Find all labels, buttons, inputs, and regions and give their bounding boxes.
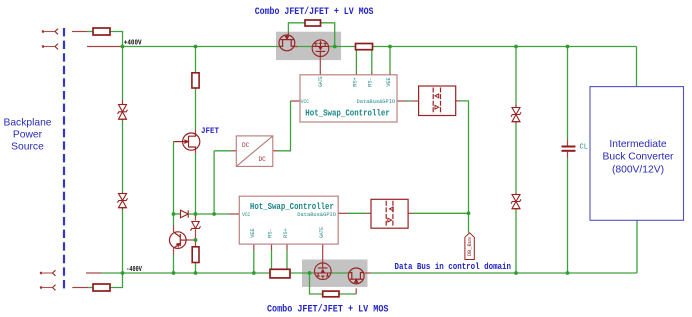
wire -400V rail left: [102, 272, 271, 274]
junction +400V corner: [121, 45, 125, 49]
svg-text:VEE: VEE: [386, 77, 392, 87]
wire DCDC in: [214, 150, 231, 152]
svg-text:DC: DC: [242, 142, 250, 149]
wire bottom fuse row: [88, 287, 93, 289]
junction -400V corner: [121, 271, 125, 275]
wire +400V rail left: [123, 46, 280, 48]
wire RS- sense tap: [371, 50, 373, 73]
TVS diode D1: [118, 101, 128, 121]
svg-text:Buck Converter: Buck Converter: [603, 152, 675, 163]
pin VCC bottom controller: [229, 213, 239, 215]
wire DCDC out: [278, 101, 291, 151]
pin GATE bottom controller: [322, 244, 324, 263]
junction VEE2 rail: [252, 271, 256, 275]
wire combo gate bridge left: [288, 23, 305, 33]
wire -400V rail right: [371, 272, 637, 274]
resistor RS1 shunt top: [356, 44, 373, 50]
svg-text:DB_Bus: DB_Bus: [466, 237, 473, 256]
junction zener node: [194, 212, 198, 216]
pin GATE top controller: [319, 56, 321, 75]
connector pin symbol bottom A: [40, 270, 56, 276]
pin RS+ top: [355, 73, 357, 75]
svg-text:Intermediate: Intermediate: [609, 139, 667, 150]
pin DCDC left: [231, 150, 236, 152]
TVS diode D2: [118, 193, 128, 210]
wire CL bottom: [567, 158, 569, 273]
resistor R2 series top: [192, 73, 199, 88]
pin DataBus top controller: [397, 100, 407, 102]
text combo bottom: [267, 304, 389, 316]
TVS diode D3: [511, 105, 521, 124]
wire VEE to rail: [389, 47, 391, 73]
pin DCDC right: [273, 150, 278, 152]
wire +400V rail right: [373, 46, 637, 48]
hot swap controller U1 (top): [300, 75, 397, 122]
pin CL top lead: [567, 140, 569, 146]
junction TVS3 rail: [514, 45, 518, 49]
resistor R6 bottom-left: [93, 284, 110, 291]
wire JFET gate column: [173, 142, 175, 225]
pin connector J1: [72, 31, 87, 33]
svg-text:Data Bus in control domain: Data Bus in control domain: [395, 262, 512, 272]
pin connector J4: [72, 287, 88, 289]
wire RS+2 sense: [286, 250, 288, 269]
pin DataBus bottom controller: [338, 212, 348, 214]
transistor Q4 combo-bottom MOSFET: [315, 263, 332, 280]
capacitor CL: [562, 147, 576, 151]
pin isolator1 left: [411, 100, 419, 102]
wire CL top: [567, 47, 569, 140]
wire RS-2 sense: [271, 250, 273, 269]
pin isolator2 right: [408, 212, 412, 214]
wire node row to diode: [174, 213, 181, 215]
DC/DC converter U3: [236, 136, 272, 167]
text data bus note: [395, 262, 512, 272]
wire bottom bridge left: [310, 273, 323, 294]
svg-text:VEE: VEE: [250, 228, 256, 238]
junction rail x195: [194, 45, 198, 49]
backplane boundary dashed line: [63, 28, 65, 291]
svg-text:Combo JFET/JFET + LV MOS: Combo JFET/JFET + LV MOS: [267, 304, 389, 316]
svg-text:-400V: -400V: [126, 266, 142, 274]
transistor Q5 combo-bottom JFET: [348, 268, 364, 284]
wire left column below TVS2: [122, 210, 124, 274]
wire databus top: [407, 100, 411, 102]
transistor Q1 JFET main: [174, 133, 200, 150]
svg-text:VCC: VCC: [301, 99, 309, 105]
wire top fuse row: [87, 31, 93, 33]
resistor RS2 shunt bottom: [270, 269, 290, 278]
wire VEE2 down: [253, 250, 255, 273]
text combo top: [255, 6, 374, 18]
svg-text:GATE: GATE: [318, 76, 324, 87]
svg-text:Backplane: Backplane: [3, 117, 51, 128]
wire left column above TVS1: [122, 47, 124, 101]
svg-text:Power: Power: [13, 130, 43, 141]
junction CL rail: [566, 45, 570, 49]
wire combo gate bridge right: [321, 23, 335, 47]
svg-text:Combo JFET/JFET + LV MOS: Combo JFET/JFET + LV MOS: [255, 6, 374, 18]
pin bottom JFET gate lead: [355, 288, 357, 294]
junction BJT rail: [172, 271, 176, 275]
diode D5: [181, 210, 189, 217]
connector pin symbol bottom B: [40, 285, 56, 291]
wire isolator1 to bus column: [460, 101, 469, 233]
pin RS- top: [371, 73, 373, 75]
label CL: [580, 144, 588, 152]
wire fuse to +400V rail corner: [110, 32, 123, 47]
wire diode to VCC node: [189, 213, 229, 215]
wire rail to series resistor: [195, 47, 197, 73]
wire resistor to -400V rail: [195, 263, 197, 273]
pin zener top lead: [195, 214, 197, 221]
net label -400V: [126, 266, 142, 274]
pin VEE bottom: [253, 244, 255, 250]
pin CL bottom lead: [567, 152, 569, 158]
svg-text:RS+: RS+: [352, 77, 358, 87]
wire TVS3 top: [515, 47, 517, 105]
svg-text:JFET: JFET: [201, 126, 219, 136]
junction base node: [194, 238, 198, 242]
wire databus bottom: [348, 212, 366, 214]
transistor Q6 BJT: [170, 232, 187, 249]
resistor R3 combo top bridge: [305, 20, 321, 26]
resistor R4 mid: [192, 247, 199, 263]
svg-text:DataBus&GPIO: DataBus&GPIO: [297, 212, 336, 218]
svg-text:Hot_Swap_Controller: Hot_Swap_Controller: [305, 108, 390, 119]
wire left column between TVS: [122, 121, 124, 193]
svg-text:Hot_Swap_Controller: Hot_Swap_Controller: [250, 201, 334, 212]
wire JFET source down: [195, 154, 197, 215]
pin top combo JFET gate lead: [287, 33, 289, 36]
zener D6: [191, 222, 201, 231]
svg-text:DC: DC: [259, 156, 267, 163]
digital isolator U5 (bottom): [371, 199, 408, 228]
junction TVS4 rail: [514, 271, 518, 275]
svg-text:GATE: GATE: [319, 227, 325, 238]
svg-text:RS-: RS-: [268, 228, 274, 238]
wire TVS3 to TVS4: [515, 124, 517, 194]
pin connector J3: [86, 272, 102, 274]
svg-text:CL: CL: [580, 144, 588, 152]
wire -400V rail shunt to combo: [290, 272, 314, 274]
pin zener bottom lead: [195, 230, 197, 241]
hot swap controller U2 (bottom): [239, 196, 338, 244]
transistor Q2 combo-top JFET: [279, 35, 295, 51]
connector pin symbol top A: [42, 29, 58, 35]
pin top combo right lead: [295, 46, 298, 48]
pin isolator2 left: [366, 212, 372, 214]
pin bottom JFET right lead: [364, 272, 371, 274]
wire rail between bottom FETs: [331, 272, 348, 274]
svg-text:RS-: RS-: [368, 77, 374, 87]
wire DCDC in drop: [213, 151, 215, 214]
junction combo2 left: [308, 271, 312, 275]
wire bottom bridge right: [339, 293, 356, 295]
gray highlight box top combo: [276, 32, 341, 60]
junction CL rail bottom: [566, 271, 570, 275]
pin connector J2: [87, 46, 122, 48]
svg-text:(800V/12V): (800V/12V): [612, 164, 664, 175]
svg-text:DataBus&GPIO: DataBus&GPIO: [357, 99, 396, 105]
net label DB_Bus: [465, 233, 474, 260]
junction resistor rail: [194, 271, 198, 275]
pin RS+ bottom: [286, 244, 288, 250]
pin VCC top controller: [291, 100, 301, 102]
pin VEE top: [389, 73, 391, 75]
text backplane power source: [3, 117, 51, 152]
wire bottom fuse to rail: [110, 273, 123, 288]
gray highlight box bottom combo: [302, 260, 368, 287]
pin stubs: [72, 32, 568, 295]
TVS diode D4: [511, 193, 521, 210]
pin BJT base lead: [186, 239, 196, 241]
junction dcdc node: [212, 212, 216, 216]
junction bus column: [467, 211, 471, 215]
wire rail up to buck return: [636, 220, 638, 273]
net label +400V: [124, 40, 142, 48]
connector pin symbol top B: [42, 44, 58, 50]
wire rail combo to shunt: [328, 46, 356, 48]
junction VEE rail: [388, 45, 392, 49]
pin RS- bottom: [271, 244, 273, 250]
resistor R5 combo bottom bridge: [323, 291, 339, 297]
svg-text:Source: Source: [11, 142, 44, 153]
svg-text:RS+: RS+: [283, 228, 289, 238]
digital isolator U4 (top): [419, 86, 456, 116]
resistor R1 top-left: [93, 28, 110, 35]
pin resistor mid top lead: [195, 240, 197, 247]
transistor Q3 combo-top MOSFET: [312, 40, 329, 57]
pin BJT collector lead: [173, 225, 175, 232]
wire rail down to buck input: [636, 47, 638, 87]
svg-text:VCC: VCC: [242, 212, 250, 218]
wire TVS4 bottom: [515, 210, 517, 273]
wire below BJT: [173, 255, 175, 273]
pin BJT emitter lead: [173, 248, 175, 255]
pin isolator1 right: [456, 100, 460, 102]
svg-text:+400V: +400V: [124, 40, 142, 48]
junction gate node: [172, 212, 176, 216]
pin JFET source lead: [195, 150, 197, 154]
text JFET label: [201, 126, 219, 136]
wire RS+ sense tap: [355, 50, 357, 73]
wire rail between combo FETs: [295, 46, 313, 48]
wire resistor to JFET drain: [195, 88, 197, 130]
pin JFET drain lead: [195, 130, 197, 134]
intermediate buck converter block: [590, 87, 684, 221]
junction combo right: [333, 45, 337, 49]
wire isolator2 to bus column: [413, 212, 469, 214]
